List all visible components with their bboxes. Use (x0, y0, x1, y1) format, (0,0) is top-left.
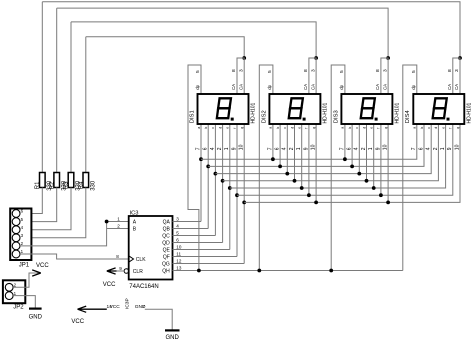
wire resistor R4 top (85, 37, 87, 173)
wire dp DIS4 (403, 65, 417, 271)
svg-text:VCC: VCC (71, 319, 84, 325)
svg-text:c: c (283, 127, 287, 129)
svg-text:CA: CA (238, 84, 243, 90)
node bus e DIS3 (372, 186, 376, 190)
svg-text:f: f (377, 128, 381, 129)
svg-text:6: 6 (418, 147, 424, 150)
display DIS3 HD-H101 body (341, 94, 392, 124)
svg-text:2: 2 (433, 147, 439, 150)
svg-text:8: 8 (231, 69, 237, 72)
svg-text:CLK: CLK (136, 257, 146, 263)
svg-text:b: b (276, 127, 280, 129)
wire bus f riser DIS3 (380, 124, 382, 195)
wire bus a riser DIS3 (344, 124, 346, 159)
svg-text:7: 7 (411, 147, 417, 150)
svg-text:d: d (434, 127, 438, 129)
wire bus d riser DIS2 (294, 124, 296, 181)
svg-text:CA: CA (231, 84, 236, 90)
node A/B junction (105, 220, 109, 224)
svg-text:f: f (449, 128, 453, 129)
svg-text:CLR: CLR (133, 269, 143, 275)
svg-text:3: 3 (454, 69, 460, 72)
svg-text:6: 6 (347, 147, 353, 150)
svg-text:10: 10 (383, 144, 389, 150)
svg-text:12: 12 (176, 259, 182, 264)
svg-text:DIS3: DIS3 (333, 110, 339, 123)
node CA junction DIS1 (242, 56, 246, 60)
vcc arrow JP2 (32, 270, 41, 276)
svg-text:e: e (226, 127, 230, 129)
node bus d DIS1 (221, 179, 225, 183)
svg-text:HD-H101: HD-H101 (467, 102, 473, 123)
wire bus e riser DIS2 (301, 124, 303, 188)
svg-text:1: 1 (296, 147, 302, 150)
svg-text:a: a (269, 127, 273, 129)
wire bus e riser DIS3 (373, 124, 375, 188)
svg-text:9: 9 (119, 266, 122, 271)
node bus g DIS2 (314, 201, 318, 205)
node bus e DIS2 (300, 186, 304, 190)
wire bus f riser DIS1 (236, 124, 238, 257)
node bus a DIS1 (199, 157, 203, 161)
svg-text:d: d (362, 127, 366, 129)
node bus c DIS1 (214, 172, 218, 176)
svg-text:2: 2 (217, 147, 223, 150)
svg-text:dp: dp (411, 84, 416, 89)
wire QE from IC3 (173, 249, 230, 251)
wire resistor R2 bottom (20, 188, 57, 222)
wire CA pins DIS2 (309, 58, 316, 94)
svg-text:dp: dp (267, 84, 272, 89)
svg-text:8: 8 (116, 254, 119, 259)
display DIS4 HD-H101 body (413, 94, 464, 124)
svg-text:e: e (441, 127, 445, 129)
svg-text:IC3P: IC3P (125, 298, 131, 309)
wire JP2-1 to GND (13, 296, 35, 308)
svg-text:f: f (305, 128, 309, 129)
svg-text:QE: QE (163, 248, 171, 254)
svg-text:8: 8 (447, 69, 453, 72)
vcc arrow CLR (107, 268, 117, 274)
svg-text:QG: QG (162, 262, 170, 268)
wire QD from IC3 (173, 242, 223, 244)
wire CA net to DIS1 (86, 37, 244, 58)
svg-text:a: a (341, 127, 345, 129)
svg-text:7: 7 (142, 304, 145, 310)
svg-text:d: d (218, 127, 222, 129)
svg-text:GND: GND (29, 314, 43, 320)
wire bus f (237, 124, 453, 195)
resistor R2 (54, 173, 60, 188)
svg-text:HD-H101: HD-H101 (251, 102, 257, 123)
svg-text:b: b (420, 127, 424, 129)
svg-text:d: d (290, 127, 294, 129)
svg-text:b: b (204, 127, 208, 129)
svg-text:8: 8 (303, 69, 309, 72)
svg-text:DIS2: DIS2 (261, 110, 267, 123)
svg-text:JP1: JP1 (19, 262, 30, 268)
svg-text:QB: QB (163, 227, 171, 233)
svg-text:5: 5 (176, 231, 179, 236)
wire QA from IC3 (173, 221, 202, 223)
svg-text:4: 4 (426, 147, 432, 150)
node bus c DIS2 (285, 172, 289, 176)
svg-text:QF: QF (163, 255, 170, 261)
svg-text:4: 4 (176, 224, 179, 229)
wire bus a riser DIS2 (272, 124, 274, 159)
wire QC from IC3 (173, 235, 216, 237)
connector JP1 (10, 209, 31, 261)
svg-text:QA: QA (163, 220, 171, 226)
node bus g DIS3 (386, 201, 390, 205)
wire resistor R1 bottom (20, 188, 42, 214)
wire IC3P GND (145, 309, 172, 330)
svg-text:HD-H101: HD-H101 (395, 102, 401, 123)
svg-text:dp: dp (339, 84, 344, 89)
wire JP1-2 to IC3 A/B (20, 222, 129, 246)
node bus b DIS2 (278, 165, 282, 169)
wire CA pins DIS3 (381, 58, 388, 94)
svg-text:10: 10 (239, 144, 245, 150)
wire resistor R3 bottom (20, 188, 71, 230)
wire CA net to DIS3 (57, 8, 388, 58)
wire JP2-2 to VCC (13, 273, 40, 287)
svg-text:CA: CA (382, 84, 387, 90)
wire QG from IC3 (173, 263, 245, 265)
svg-text:a: a (413, 127, 417, 129)
svg-text:g: g (384, 127, 388, 129)
svg-text:9: 9 (447, 147, 453, 150)
node bus e DIS1 (228, 186, 232, 190)
svg-text:3: 3 (176, 217, 179, 222)
display DIS1 HD-H101 body (198, 94, 249, 124)
wire resistor R4 bottom (20, 188, 86, 238)
svg-text:VCC: VCC (103, 282, 116, 288)
svg-text:1: 1 (224, 147, 230, 150)
svg-text:5: 5 (339, 70, 345, 73)
svg-text:dp: dp (195, 84, 200, 89)
wire QB from IC3 (173, 228, 209, 230)
wire dp DIS2 (259, 65, 273, 271)
node bus b DIS1 (206, 165, 210, 169)
svg-text:9: 9 (231, 147, 237, 150)
wire CA pins DIS1 (237, 58, 244, 94)
svg-text:3: 3 (382, 69, 388, 72)
svg-text:74AC164N: 74AC164N (129, 284, 158, 290)
node bus d DIS3 (365, 179, 369, 183)
wire dp DIS3 (331, 65, 345, 271)
wire bus c (215, 124, 431, 174)
svg-text:VCC: VCC (36, 263, 49, 269)
wire dp DIS1 (188, 65, 201, 271)
svg-text:CA: CA (310, 84, 315, 90)
wire bus a riser DIS1 (200, 124, 202, 222)
connector JP2 (3, 280, 25, 303)
node CA junction DIS4 (458, 56, 462, 60)
svg-text:QH: QH (162, 269, 170, 275)
svg-text:g: g (240, 127, 244, 129)
svg-text:2: 2 (289, 147, 295, 150)
svg-text:10: 10 (311, 144, 317, 150)
node dp DIS2 (257, 269, 261, 273)
svg-text:10: 10 (176, 245, 182, 250)
vcc arrow IC3P (78, 306, 107, 312)
wire bus d riser DIS1 (222, 124, 224, 243)
wire bus e (230, 124, 446, 188)
svg-text:c: c (355, 127, 359, 129)
svg-text:1: 1 (440, 147, 446, 150)
svg-text:R4: R4 (78, 181, 84, 189)
wire resistor R2 top (56, 8, 58, 172)
wire bus a (201, 124, 417, 159)
svg-text:4: 4 (210, 147, 216, 150)
svg-text:5: 5 (267, 70, 273, 73)
svg-text:HD-H101: HD-H101 (323, 102, 329, 123)
svg-text:g: g (312, 127, 316, 129)
svg-text:R3: R3 (64, 181, 70, 189)
wire CLR to VCC (117, 270, 125, 272)
svg-text:1: 1 (117, 216, 120, 221)
svg-text:R2: R2 (49, 181, 55, 189)
svg-text:7: 7 (267, 147, 273, 150)
svg-text:2: 2 (361, 147, 367, 150)
node bus f DIS2 (307, 193, 311, 197)
svg-text:10: 10 (454, 144, 460, 150)
svg-text:1: 1 (368, 147, 374, 150)
svg-text:e: e (298, 127, 302, 129)
node bus d DIS2 (293, 179, 297, 183)
svg-text:CA: CA (454, 84, 459, 90)
wire QH from IC3 (173, 270, 403, 272)
svg-text:7: 7 (339, 147, 345, 150)
svg-text:e: e (370, 127, 374, 129)
wire bus b riser DIS3 (351, 124, 353, 166)
wire bus g riser DIS2 (315, 124, 317, 202)
svg-text:2: 2 (117, 223, 120, 228)
wire bus g (244, 124, 460, 202)
node bus a DIS2 (271, 157, 275, 161)
wire bus b riser DIS1 (207, 124, 209, 229)
resistor R4 (83, 173, 89, 188)
svg-text:3: 3 (238, 69, 244, 72)
svg-text:5: 5 (411, 70, 417, 73)
node bus c DIS3 (357, 172, 361, 176)
wire bus b (208, 124, 424, 166)
node CA junction DIS2 (314, 56, 318, 60)
svg-text:5: 5 (195, 70, 201, 73)
node bus f DIS1 (235, 193, 239, 197)
wire JP1-1 to CLK (20, 254, 129, 259)
wire bus c riser DIS2 (286, 124, 288, 174)
svg-text:c: c (427, 127, 431, 129)
node bus f DIS3 (379, 193, 383, 197)
node bus b DIS3 (350, 165, 354, 169)
wire CA net to DIS4 (42, 2, 460, 58)
wire to IC3 B (107, 228, 129, 230)
wire CA pins DIS4 (453, 58, 460, 94)
svg-text:4: 4 (282, 147, 288, 150)
wire bus b riser DIS2 (279, 124, 281, 166)
svg-text:330: 330 (90, 180, 96, 191)
svg-text:JP2: JP2 (13, 304, 24, 310)
svg-text:8: 8 (375, 69, 381, 72)
svg-text:DIS4: DIS4 (405, 110, 411, 124)
wire bus c riser DIS3 (358, 124, 360, 174)
resistor R3 (68, 173, 74, 188)
ground JP2 (29, 308, 42, 310)
wire CA net to DIS2 (71, 22, 316, 58)
op-amp U1 IC3 74AC164N body (129, 216, 173, 280)
wire QF from IC3 (173, 256, 238, 258)
svg-text:CA: CA (447, 84, 452, 90)
node dp DIS3 (329, 269, 333, 273)
wire bus d riser DIS3 (366, 124, 368, 181)
wire bus f riser DIS2 (308, 124, 310, 195)
svg-text:g: g (456, 127, 460, 129)
wire bus g riser DIS1 (243, 124, 245, 264)
svg-text:R1: R1 (35, 181, 41, 189)
wire resistor R1 top (41, 2, 43, 173)
resistor R1 (40, 173, 46, 188)
svg-text:7: 7 (195, 147, 201, 150)
svg-text:f: f (233, 128, 237, 129)
svg-text:9: 9 (303, 147, 309, 150)
svg-text:6: 6 (203, 147, 209, 150)
wire bus g riser DIS3 (387, 124, 389, 202)
svg-text:DIS1: DIS1 (189, 110, 195, 123)
svg-text:VCC: VCC (110, 304, 121, 310)
node dp DIS1 (197, 269, 201, 273)
svg-text:CA: CA (375, 84, 380, 90)
svg-text:6: 6 (275, 147, 281, 150)
svg-text:6: 6 (176, 238, 179, 243)
svg-text:4: 4 (354, 147, 360, 150)
svg-text:b: b (348, 127, 352, 129)
svg-text:13: 13 (176, 266, 182, 271)
svg-text:IC3: IC3 (130, 210, 139, 216)
wire bus d (223, 124, 439, 181)
svg-text:c: c (211, 127, 215, 129)
svg-text:GND: GND (166, 335, 180, 341)
ground IC3P (165, 329, 180, 331)
svg-text:QC: QC (162, 234, 170, 240)
svg-text:3: 3 (310, 69, 316, 72)
node CA junction DIS3 (386, 56, 390, 60)
node bus g DIS1 (242, 201, 246, 205)
wire bus e riser DIS1 (229, 124, 231, 250)
wire resistor R3 top (70, 22, 72, 173)
svg-text:CA: CA (303, 84, 308, 90)
svg-text:9: 9 (375, 147, 381, 150)
svg-text:11: 11 (176, 252, 181, 257)
node bus a DIS3 (343, 157, 347, 161)
wire bus c riser DIS1 (214, 124, 216, 236)
svg-text:QD: QD (162, 241, 170, 247)
svg-text:a: a (197, 127, 201, 129)
display DIS2 HD-H101 body (269, 94, 320, 124)
